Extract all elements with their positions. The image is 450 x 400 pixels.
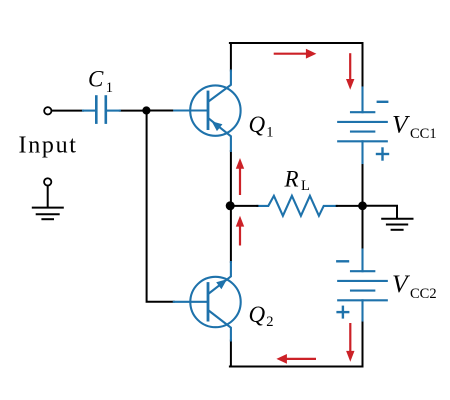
svg-text:CC1: CC1 xyxy=(410,126,437,142)
svg-text:R: R xyxy=(284,166,299,191)
svg-text:Input: Input xyxy=(19,132,78,158)
svg-text:Q: Q xyxy=(249,112,266,137)
svg-text:C: C xyxy=(88,66,104,91)
svg-text:L: L xyxy=(301,178,310,194)
svg-text:2: 2 xyxy=(266,314,273,330)
svg-text:1: 1 xyxy=(106,80,113,96)
svg-text:Q: Q xyxy=(249,302,266,327)
svg-text:1: 1 xyxy=(266,125,273,141)
svg-text:CC2: CC2 xyxy=(410,286,437,302)
